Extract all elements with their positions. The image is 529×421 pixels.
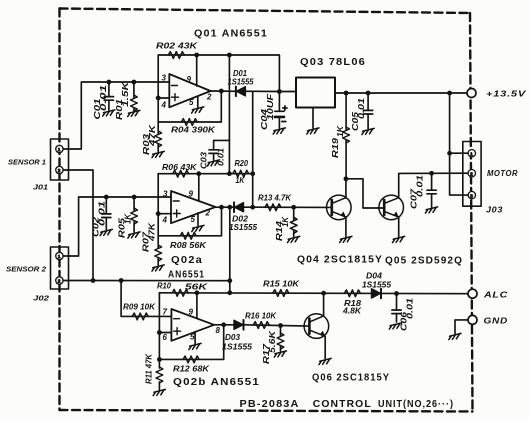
resistor R07 (vertical) <box>155 245 162 261</box>
ground R17 <box>274 351 286 357</box>
node R17 tap <box>278 323 283 328</box>
resistor R03 (vertical) <box>155 131 162 147</box>
wire Q02b pin 6 stub <box>159 332 171 334</box>
diode D03 1S1555 (pointing right) <box>234 320 244 330</box>
node J01 pin2 riser junction <box>91 278 96 283</box>
capacitor C05 <box>364 110 373 114</box>
op-amp Q02b <box>171 309 214 341</box>
node Q01 output junction <box>219 89 224 94</box>
capacitor C02 <box>102 214 111 218</box>
svg-text:5: 5 <box>190 333 195 342</box>
connector J03 box <box>463 142 481 207</box>
diode D04 1S1555 (pointing right) <box>372 289 382 299</box>
ground Q04 emitter <box>340 236 352 242</box>
svg-text:J03: J03 <box>486 205 503 215</box>
svg-text:1S1555: 1S1555 <box>228 78 254 87</box>
wire C03 vertical from rail to R06 rail <box>228 55 230 174</box>
svg-text:D04: D04 <box>366 272 382 281</box>
wire C01 lower lead <box>108 100 110 110</box>
svg-text:Q01 AN6551: Q01 AN6551 <box>194 29 268 40</box>
node R12 rail junction <box>157 357 162 362</box>
wire Q04 collector riser <box>345 179 347 198</box>
resistor R09 <box>132 313 148 320</box>
svg-text:R04 390K: R04 390K <box>171 126 216 135</box>
svg-text:6: 6 <box>163 333 168 342</box>
wire C02 upper lead <box>105 197 107 214</box>
svg-text:R08 56K: R08 56K <box>170 241 207 250</box>
wire GND terminal stub <box>455 320 468 334</box>
wire Q02a pin 5 to ground <box>197 213 199 226</box>
wire Q05 collector riser to motor pin2 <box>399 173 468 198</box>
svg-text:UNIT(NO,26···): UNIT(NO,26···) <box>378 399 454 410</box>
svg-text:47K: 47K <box>148 222 157 242</box>
node long-vertical top junction <box>227 205 232 210</box>
connector J01 box <box>51 139 69 180</box>
wire R01 lower lead <box>133 109 135 111</box>
wire J02 pin1 to Q02a inverting input <box>63 197 171 256</box>
terminal ALC <box>468 289 477 298</box>
wire R03 from feedback rail corner <box>157 122 159 134</box>
node R01 tap on Q01 input <box>132 80 137 85</box>
svg-text:2: 2 <box>206 93 212 102</box>
svg-text:J01: J01 <box>33 183 48 192</box>
node sensor common crossing junction <box>227 278 232 283</box>
wire Q02a R08 bottom rail <box>158 207 221 236</box>
connector J01 pin 2 <box>56 166 63 173</box>
capacitor C04 electrolytic <box>275 106 287 122</box>
wire R19 lower to Q04 collector node <box>345 141 347 179</box>
connector J02 box <box>51 247 69 289</box>
node motor pin1 junction <box>447 151 452 156</box>
wire Q02b output to D03 <box>214 324 234 326</box>
transistor Q05 2SD592Q <box>379 195 404 220</box>
svg-text:J02: J02 <box>33 294 50 303</box>
node Q04 collector / R19 junction <box>344 176 349 181</box>
wire Q02b pin 9 drop <box>196 293 198 319</box>
node motor feed tap <box>447 91 452 96</box>
wire sensor common from J02 pin2 <box>63 280 230 282</box>
resistor R17 (vertical) <box>277 333 284 349</box>
wire top rail to regulator input <box>229 55 279 92</box>
resistor R02 <box>168 52 184 59</box>
svg-text:0.01: 0.01 <box>99 84 108 111</box>
svg-text:1S1555: 1S1555 <box>229 223 257 232</box>
wire R10/R15 summing rail to ALC terminal <box>159 292 468 295</box>
wire motor pins 1-3 drop <box>450 93 468 195</box>
ground Q05 emitter <box>393 236 405 242</box>
svg-text:10UF: 10UF <box>266 93 275 120</box>
wire Q01 output to D01 <box>211 90 236 92</box>
wire R11 lower lead <box>158 382 160 390</box>
svg-text:5: 5 <box>189 98 194 107</box>
resistor R11 (vertical) <box>156 367 163 383</box>
node Q02a pin9 junction <box>196 171 201 176</box>
svg-text:0.01: 0.01 <box>357 97 366 119</box>
connector J03 pin 1 <box>468 150 475 157</box>
wire Q04 emitter drop <box>345 217 347 237</box>
svg-text:CONTROL: CONTROL <box>313 399 372 410</box>
wire R06/R20 rail <box>158 173 253 175</box>
resistor R04 <box>181 119 197 126</box>
wire Q01 pin 5 to ground <box>197 96 199 107</box>
capacitor C03 <box>209 150 218 154</box>
ground C03 <box>207 160 219 166</box>
resistor R08 <box>180 232 196 239</box>
wire Q04 collector to Q05 base <box>346 179 384 208</box>
svg-text:+13.5V: +13.5V <box>486 89 527 99</box>
wire C03 lower lead <box>213 153 215 160</box>
svg-text:4: 4 <box>161 101 167 110</box>
diode D01 1S1555 (pointing left) <box>236 87 246 97</box>
capacitor C06 <box>392 310 401 314</box>
svg-text:R06 43K: R06 43K <box>162 163 198 172</box>
op-amp Q01 <box>169 74 210 107</box>
svg-text:2: 2 <box>58 168 61 173</box>
ground Q02b pin5 <box>189 343 201 349</box>
wire R01 upper lead <box>133 82 135 98</box>
dashed enclosure border bottom <box>60 410 473 412</box>
wire R05 upper lead <box>133 197 135 211</box>
node Q02b pin9 junction <box>195 290 200 295</box>
wire D01 cathode-side run to C04 node <box>245 90 279 92</box>
wire R17 lower lead <box>280 347 282 352</box>
wire D01/D02 cathode vertical <box>252 91 254 207</box>
svg-text:2: 2 <box>58 279 61 284</box>
wire Q05 emitter drop <box>398 217 400 237</box>
svg-text:1: 1 <box>58 147 61 152</box>
svg-text:1K: 1K <box>236 176 246 185</box>
diode D02 1S1555 (pointing left) <box>234 202 244 212</box>
wire D02 to R13 to Q04 base <box>244 206 332 208</box>
node C06 tap <box>394 291 399 296</box>
node R14 tap <box>291 205 296 210</box>
wire Q01 pin 9 drop <box>196 55 198 86</box>
wire D03 to R16 to Q06 base <box>244 325 310 326</box>
wire R09 branch down to Q02b inverting input <box>121 281 171 317</box>
svg-text:1S1555: 1S1555 <box>222 343 252 352</box>
wire C02 lower lead <box>105 218 107 230</box>
wire C05 upper lead <box>367 93 369 110</box>
wire R17 upper lead <box>280 326 282 336</box>
svg-text:9: 9 <box>187 75 192 84</box>
wires placeholder <box>63 53 468 396</box>
svg-text:Q05 2SD592Q: Q05 2SD592Q <box>385 256 463 267</box>
svg-text:4.8K: 4.8K <box>342 307 362 316</box>
svg-text:R19: R19 <box>331 137 340 158</box>
svg-text:1K: 1K <box>336 125 345 137</box>
svg-text:3: 3 <box>163 190 168 199</box>
svg-text:4: 4 <box>162 216 168 225</box>
node R05 tap <box>132 195 137 200</box>
ground R03 <box>152 151 164 157</box>
ground R11 <box>153 389 165 395</box>
dashed enclosure border right <box>470 13 473 412</box>
connector J02 pin 2 <box>56 277 63 284</box>
svg-text:3: 3 <box>470 193 473 198</box>
wire R19 upper lead <box>345 93 347 130</box>
regulator Q03 78L06 box <box>296 78 335 108</box>
svg-text:SENSOR 1: SENSOR 1 <box>8 158 46 167</box>
resistor R12 <box>183 356 199 363</box>
svg-text:R09 10K: R09 10K <box>123 303 156 312</box>
wire C07 lower lead <box>431 194 433 207</box>
svg-text:D03: D03 <box>225 333 240 342</box>
svg-text:R10: R10 <box>157 282 171 291</box>
resistor R20 <box>233 170 249 177</box>
svg-text:2: 2 <box>205 209 211 218</box>
svg-text:Q04 2SC1815Y: Q04 2SC1815Y <box>297 255 383 266</box>
ground GND terminal <box>449 333 461 339</box>
node C03 branch rail junction <box>227 53 232 58</box>
wire J01 pin2 riser <box>63 170 93 281</box>
node Q02a output junction <box>219 205 224 210</box>
wire R14 upper lead <box>293 207 295 220</box>
wire Q02a output to D02 <box>216 206 235 208</box>
wire Q01 R04 bottom rail <box>158 91 221 122</box>
wire Q06 emitter drop <box>324 337 326 359</box>
svg-text:R20: R20 <box>235 159 249 168</box>
svg-text:PB-2083A: PB-2083A <box>240 399 300 410</box>
node summing rail junction <box>227 290 232 295</box>
wire Q02a pin 9 drop <box>198 174 200 202</box>
svg-text:5.6K: 5.6K <box>268 330 277 353</box>
node C01 tap on Q01 input <box>107 80 112 85</box>
resistor R05 (vertical) <box>131 208 138 224</box>
wire C07 upper lead <box>431 173 433 190</box>
svg-text:47K: 47K <box>148 123 157 147</box>
wire Q02a feedback left vertical <box>157 174 159 248</box>
resistor R14 (vertical) <box>290 217 297 233</box>
svg-text:C03: C03 <box>200 152 209 169</box>
wire Q02b R12 bottom rail <box>159 325 223 360</box>
node Q02b pin6 junction <box>157 330 162 335</box>
svg-text:1S1555: 1S1555 <box>362 281 391 290</box>
ground C02 <box>100 229 112 235</box>
svg-text:9: 9 <box>189 190 194 199</box>
svg-text:Q02a: Q02a <box>171 255 203 266</box>
wire long vertical Q02a output to summing rail <box>229 207 231 293</box>
svg-text:0.01: 0.01 <box>416 174 425 197</box>
node Q02b output junction <box>221 322 226 327</box>
wire Q02b pin 5 to ground <box>194 332 196 344</box>
svg-text:9: 9 <box>189 308 194 317</box>
wire C05 lower lead <box>367 114 369 129</box>
wire C03 stub <box>214 140 230 149</box>
wire regulator input stub <box>279 91 296 93</box>
node R20 to diode-rail junction <box>250 171 255 176</box>
svg-text:Q03 78L06: Q03 78L06 <box>300 57 366 68</box>
ground R01 <box>128 110 140 116</box>
svg-text:R12 68K: R12 68K <box>173 365 210 374</box>
node C05 tap <box>366 91 371 96</box>
wire C04 upper lead <box>278 92 280 112</box>
wire C06 lower lead <box>396 314 398 322</box>
wire Q06 collector riser <box>323 293 325 316</box>
svg-text:7: 7 <box>163 308 168 317</box>
svg-text:8: 8 <box>216 326 221 335</box>
svg-text:SENSOR 2: SENSOR 2 <box>6 265 47 274</box>
connector J03 pin 3 <box>468 191 475 198</box>
ground C01 <box>103 110 115 116</box>
node D02 junction <box>250 205 255 210</box>
wire Q01 feedback left rail <box>158 55 229 122</box>
components placeholder <box>102 52 437 383</box>
capacitor C07 <box>427 190 436 194</box>
wire J01 pin1 to Q01 inverting input <box>63 82 169 149</box>
resistor R16 <box>253 322 269 329</box>
node C02 tap <box>104 195 109 200</box>
ground Q02a pin5 <box>192 225 204 231</box>
svg-text:Q06 2SC1815Y: Q06 2SC1815Y <box>312 373 390 384</box>
resistor R18 <box>344 290 360 297</box>
node Q01 pin4 junction <box>156 96 161 101</box>
op-amp Q02a <box>171 191 216 223</box>
svg-text:R13 4.7K: R13 4.7K <box>258 194 292 203</box>
wire +13.5V rail from regulator to terminal <box>335 92 467 94</box>
svg-text:AN6551: AN6551 <box>168 270 205 281</box>
svg-text:5: 5 <box>191 215 196 224</box>
op-amp Q02b pin labels <box>163 308 221 343</box>
node C03 vertical junction on R06 rail <box>227 171 232 176</box>
ground C04 <box>273 128 285 134</box>
ground R05 <box>128 232 140 238</box>
svg-text:0.01: 0.01 <box>98 200 107 226</box>
svg-text:1: 1 <box>470 151 473 156</box>
terminal GND <box>468 315 477 324</box>
ground R14 <box>288 236 300 242</box>
node pin9 rail junction Q01 <box>194 53 199 58</box>
wire R05 lower lead <box>133 222 135 233</box>
svg-text:R16 10K: R16 10K <box>245 312 277 321</box>
ground R07 <box>152 265 164 271</box>
svg-text:1.5K: 1.5K <box>121 80 130 107</box>
svg-text:3: 3 <box>162 74 167 83</box>
wire R14 lower lead <box>293 231 295 237</box>
wire motor pin1 stub <box>450 152 468 154</box>
svg-text:ALC: ALC <box>483 290 508 300</box>
svg-text:R15 10K: R15 10K <box>263 280 300 289</box>
node Q02a pin4 junction <box>156 211 161 216</box>
resistor R19 (vertical) <box>343 127 350 143</box>
dashed enclosure border top <box>60 9 471 14</box>
ground C07 <box>425 207 437 213</box>
terminal +13.5V <box>467 89 476 98</box>
ground C06 <box>389 323 401 329</box>
resistor R10 <box>172 289 188 296</box>
svg-text:R11 47K: R11 47K <box>145 353 154 384</box>
svg-text:0.01: 0.01 <box>217 147 226 166</box>
wire C01 upper lead <box>108 82 110 97</box>
svg-text:56K: 56K <box>185 283 209 292</box>
node C04 / regulator input junction <box>277 89 282 94</box>
transistor Q04 2SC1815Y <box>327 195 352 220</box>
resistor R06 <box>173 170 189 177</box>
svg-text:0.01: 0.01 <box>406 297 415 319</box>
wire Q02a pin 4 stub <box>158 213 171 215</box>
op-amp Q02a pin labels <box>162 190 211 225</box>
svg-text:1: 1 <box>58 254 61 259</box>
svg-text:2: 2 <box>470 171 473 176</box>
svg-text:Q02b AN6551: Q02b AN6551 <box>173 377 260 388</box>
wire C04 lower lead <box>278 117 280 128</box>
transistor Q06 2SC1815Y <box>304 314 329 339</box>
ground Q01 pin5 <box>192 107 204 113</box>
resistor R13 <box>265 204 281 211</box>
resistor R01 (vertical) <box>131 95 138 111</box>
connector J03 pin 2 <box>468 170 475 177</box>
ground regulator <box>307 128 319 134</box>
wire R03 lower lead <box>157 145 159 152</box>
connector J01 pin 1 <box>56 145 63 152</box>
wire Q02b left vertical to R11 <box>158 293 160 368</box>
wire R07 lower lead <box>157 259 159 266</box>
node R19 tap <box>344 91 349 96</box>
node R09 branch junction <box>119 278 124 283</box>
resistor R15 <box>273 290 289 297</box>
svg-text:R02 43K: R02 43K <box>156 42 198 51</box>
node C07 tap <box>429 171 434 176</box>
connector J02 pin 1 <box>56 252 63 259</box>
wire C06 upper lead <box>396 294 398 311</box>
dashed enclosure border left <box>58 9 60 411</box>
wire Q01 pin 4 stub <box>158 97 169 99</box>
svg-text:GND: GND <box>484 316 509 326</box>
capacitor C01 <box>104 97 113 101</box>
node Q06 collector junction <box>321 291 326 296</box>
wire regulator ground pin <box>312 108 314 129</box>
frame placeholder <box>51 9 482 412</box>
ground C05 <box>362 128 374 134</box>
op-amp Q01 pin labels <box>161 74 213 110</box>
svg-text:MOTOR: MOTOR <box>487 168 518 178</box>
svg-text:1K: 1K <box>281 216 290 227</box>
svg-text:1K: 1K <box>124 213 133 224</box>
ground Q06 emitter <box>319 358 331 364</box>
